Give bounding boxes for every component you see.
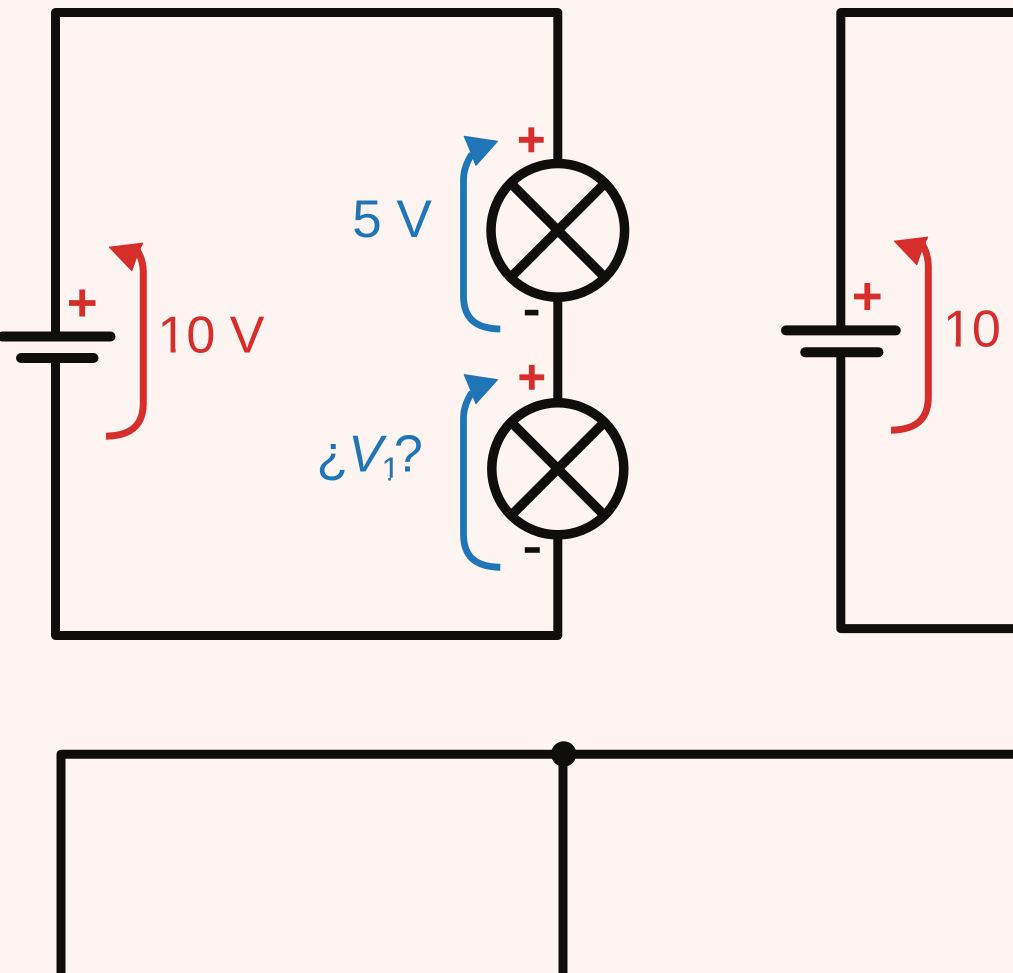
wire C3 middle branch: [559, 754, 568, 973]
label ¿V1? (lamp L2): [317, 426, 423, 488]
wire C1 top: [56, 13, 558, 333]
battery B2 plus sign: [854, 283, 881, 310]
lamp L1: [491, 164, 625, 298]
battery B1 short plate: [21, 353, 94, 363]
battery B1 plus sign: [69, 290, 96, 317]
svg-text:¿V1?: ¿V1?: [317, 426, 423, 488]
battery B1 long plate: [3, 332, 111, 342]
svg-text:5 V: 5 V: [352, 190, 432, 249]
label 10 V (battery B2, clipped): [943, 301, 1013, 359]
blue arrow lamp L1: [464, 136, 501, 329]
svg-text:10 V: 10 V: [158, 307, 265, 365]
lamp L2 plus sign: [519, 365, 544, 390]
wire C3 top: [61, 754, 1013, 973]
lamp L2: [492, 403, 624, 535]
lamp L1 minus sign: [525, 310, 539, 316]
battery B2 long plate: [786, 325, 896, 335]
blue arrow lamp L2: [464, 375, 501, 568]
lamp L1 plus sign: [519, 127, 544, 152]
svg-text:10 V: 10 V: [943, 301, 1013, 359]
label 10 V (battery B1): [158, 307, 265, 365]
junction node: [551, 741, 576, 766]
lamp L2 minus sign: [525, 547, 540, 553]
wire C2 bottom: [841, 352, 1013, 628]
red arrow battery B1: [106, 243, 143, 436]
battery B2 short plate: [805, 347, 878, 357]
wire C2 top: [841, 13, 1013, 327]
wire C1 between lamps: [553, 301, 562, 400]
red arrow battery B2: [891, 237, 928, 430]
wire C1 bottom: [56, 359, 558, 636]
